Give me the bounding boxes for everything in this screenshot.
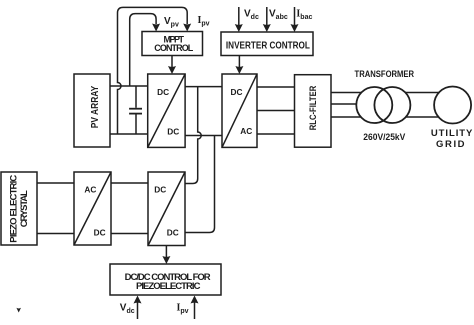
svg-text:CRYSTAL: CRYSTAL: [19, 190, 30, 227]
label UTILITY GRID: [431, 128, 473, 150]
arrowhead Ibac: [291, 24, 299, 32]
arrow Ipv feedback: [194, 301, 196, 319]
piezo electric crystal block: [1, 172, 37, 245]
wire Ipv sense loop with hop: [118, 7, 188, 134]
wire piezo to AC/DC top: [37, 182, 74, 184]
svg-text:Vdc: Vdc: [244, 9, 259, 22]
svg-text:Ipv: Ipv: [198, 15, 210, 28]
arrowhead Ipv up: [191, 296, 199, 304]
capacitor C1: [129, 86, 142, 134]
wire piezo to AC/DC bottom: [37, 233, 74, 235]
wire AC/DC to DC/DC bottom: [111, 233, 148, 235]
arrow Vabc input: [266, 7, 268, 25]
svg-text:TRANSFORMER: TRANSFORMER: [355, 69, 415, 79]
wire DC link top rail: [185, 86, 222, 88]
arrow DC/DC to control: [165, 246, 167, 258]
wire 3-phase b: [257, 110, 295, 112]
svg-text:DC: DC: [154, 185, 166, 195]
stray arrowhead: [16, 308, 21, 313]
wire transformer to grid top: [396, 92, 452, 94]
svg-text:CONTROL: CONTROL: [154, 43, 194, 53]
arrow inverter control to DC/AC: [238, 56, 240, 68]
svg-text:DC: DC: [94, 228, 106, 238]
wire DC link bottom rail: [185, 135, 222, 137]
arrowhead Vabc: [263, 24, 271, 32]
wire 3-phase c: [257, 133, 295, 135]
arrowhead Vdc up: [134, 296, 142, 304]
wire boost tap to top rail with hop: [185, 87, 201, 184]
converter DC/DC U4: [148, 172, 185, 246]
converter DC/DC U1: [148, 74, 185, 147]
transformer T1: [356, 87, 410, 123]
svg-text:DC: DC: [231, 87, 243, 97]
svg-text:Vpv: Vpv: [164, 16, 179, 29]
svg-text:AC: AC: [84, 185, 96, 195]
wire transformer to grid bottom: [396, 116, 452, 118]
svg-text:DC: DC: [167, 127, 179, 137]
svg-text:260V/25kV: 260V/25kV: [363, 132, 405, 142]
svg-text:UTILITY: UTILITY: [431, 128, 473, 139]
svg-text:PV ARRAY: PV ARRAY: [90, 85, 101, 128]
PV array block: [74, 74, 110, 147]
wire PV top rail: [110, 85, 148, 87]
svg-text:RLC-FILTER: RLC-FILTER: [308, 85, 318, 130]
inverter control block: [221, 32, 313, 56]
wire boost tap to bottom rail: [185, 136, 214, 233]
label PIEZO ELECTRIC CRYSTAL: [9, 175, 30, 243]
label DC/DC CONTROL FOR PIEZOELECTRIC: [125, 272, 211, 292]
wire RLC to transformer c: [331, 116, 365, 118]
arrowhead Vdc: [235, 24, 243, 32]
arrowhead to DC/DC control: [162, 256, 170, 264]
rectifier AC/DC U3: [74, 172, 111, 245]
arrowhead Vpv: [152, 24, 160, 32]
wire RLC to transformer a: [331, 92, 365, 94]
wire PV bottom rail: [110, 133, 148, 135]
svg-text:AC: AC: [240, 126, 252, 136]
DC/DC control block: [110, 264, 221, 295]
svg-text:Ipv: Ipv: [177, 303, 189, 316]
arrowhead Ipv: [183, 24, 191, 32]
svg-text:PIEZOELECTRIC: PIEZOELECTRIC: [136, 281, 201, 292]
arrow Ibac input: [294, 7, 296, 25]
svg-text:Vabc: Vabc: [269, 9, 288, 22]
svg-text:Ibac: Ibac: [296, 9, 312, 22]
svg-text:INVERTER CONTROL: INVERTER CONTROL: [226, 40, 310, 51]
arrow Vdc feedback: [137, 301, 139, 319]
arrow MPPT to DC/DC: [171, 56, 173, 68]
wire 3-phase a: [257, 86, 295, 88]
utility grid G1: [434, 87, 471, 124]
inverter DC/AC U2: [222, 74, 257, 147]
wire AC/DC to DC/DC top: [111, 182, 148, 184]
svg-text:DC: DC: [157, 87, 169, 97]
wire RLC to transformer b: [331, 103, 360, 105]
arrowhead MPPT out: [168, 66, 176, 74]
arrowhead inverter control out: [235, 66, 243, 74]
RLC filter block: [295, 75, 332, 148]
svg-text:DC: DC: [167, 227, 179, 237]
svg-text:Vdc: Vdc: [120, 303, 135, 316]
arrow Vdc input: [238, 7, 240, 25]
wire Vpv sense loop: [130, 14, 156, 86]
label MPPT CONTROL: [154, 34, 194, 53]
MPPT control block: [142, 32, 203, 56]
svg-text:GRID: GRID: [436, 139, 465, 150]
